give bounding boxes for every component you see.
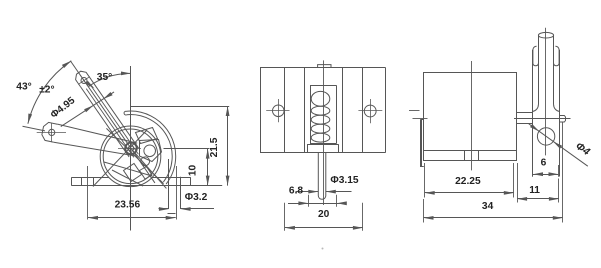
reference line at hub height for dimension 10 bbox=[164, 148, 210, 150]
spring coil loop 4 bbox=[311, 124, 330, 133]
svg-text:43°: 43° bbox=[16, 82, 31, 93]
extension lines for 34 bbox=[423, 199, 425, 223]
svg-text:Φ3.15: Φ3.15 bbox=[330, 175, 359, 186]
internal mechanism small bar lower right bbox=[140, 167, 153, 180]
base plate bottom edge extended right as reference bbox=[72, 185, 223, 187]
dimension 34 with outward arrows bbox=[424, 217, 563, 219]
lever arm A edges bbox=[91, 79, 139, 148]
diameter 4 hole in lever bbox=[537, 128, 554, 145]
lever arm A centerline extended bbox=[70, 61, 155, 183]
dimension diameter 3.15 leader with inward arrows bbox=[296, 191, 319, 193]
vertical centerline of side view bbox=[471, 61, 473, 170]
extension lines for bottom dimension bbox=[284, 203, 286, 231]
pin end stub on right of lever bbox=[559, 116, 565, 123]
dimension 21.5 vertical with arrows bbox=[227, 106, 229, 186]
node: 43-degree angular dimension arc with arrows bbox=[28, 61, 71, 124]
internal ratchet mechanism - pawl link with small circle bbox=[140, 140, 162, 162]
dimension 20 line with outside arrows bbox=[288, 203, 346, 205]
lever column outer edges bbox=[532, 50, 534, 177]
reference line at top for dimension 21.5 bbox=[131, 106, 230, 108]
svg-text:23.56: 23.56 bbox=[115, 199, 141, 210]
left mounting hole with crosshair bbox=[273, 105, 285, 117]
inner vertical line right panel bbox=[362, 68, 364, 153]
horizontal centerline segments bbox=[413, 118, 428, 120]
leader line for diameter 4 through hole bbox=[529, 124, 588, 166]
pin tip mark bbox=[168, 213, 176, 215]
body inner horizontal line bbox=[424, 150, 517, 152]
plunger pin below base (left view) vertical lines bbox=[168, 159, 170, 209]
internal mechanism bar lower bbox=[124, 164, 142, 182]
base plate tick lines bbox=[81, 177, 83, 186]
svg-text:35°: 35° bbox=[97, 72, 112, 83]
svg-text:Φ3.2: Φ3.2 bbox=[185, 192, 208, 203]
dimension 23.56 line with outward arrows bbox=[88, 217, 176, 219]
dimension 10 vertical with arrows bbox=[207, 149, 209, 186]
faint dot artifact bbox=[322, 248, 324, 250]
center channel left wall bbox=[304, 68, 306, 153]
base plate top edge (left segment) bbox=[72, 177, 109, 179]
wire: vertical centerline of rotary solenoid body (left view) bbox=[130, 66, 132, 231]
center channel right wall bbox=[342, 68, 344, 153]
solenoid front view body rectangle bbox=[260, 67, 386, 69]
inner slot rectangle (spring window) bbox=[310, 85, 337, 87]
svg-text:34: 34 bbox=[482, 201, 494, 212]
extension lines for 11 bbox=[517, 163, 519, 203]
dimension: diameter 4.95 of lever arm, leader with arrows bbox=[61, 92, 114, 127]
small cylinder on top of lever bbox=[538, 32, 553, 38]
spring coil loop 3 bbox=[311, 115, 330, 124]
svg-text:11: 11 bbox=[529, 185, 540, 196]
lever shaft inner lines bbox=[538, 35, 540, 104]
hub horizontal centerline bbox=[118, 148, 141, 150]
side view body rectangle bbox=[424, 72, 517, 74]
fillets where shaft widens bbox=[533, 105, 539, 112]
lever arm A (upper position) - chamfered tip cap bbox=[76, 71, 91, 86]
internal mechanism small roller circle bbox=[141, 157, 150, 166]
plunger head rectangle bbox=[307, 144, 338, 146]
dimension 22.25 with outward arrows bbox=[425, 192, 514, 194]
hub / shaft circles bbox=[125, 143, 137, 155]
projection centerline dash between views bbox=[409, 110, 420, 112]
spring coil top loop bbox=[311, 91, 330, 106]
node: 35-degree angular dimension arc with arrows bbox=[89, 73, 131, 86]
hole in lever arm B tip with crosshair bbox=[49, 129, 55, 135]
base mounting hole centerline bbox=[87, 166, 89, 220]
body inner tick lines bbox=[464, 151, 466, 162]
lever vertical centerline bbox=[545, 28, 547, 156]
svg-text:22.25: 22.25 bbox=[455, 176, 481, 187]
extension lines for 20 bbox=[308, 195, 310, 207]
base plate top edge (right segment) bbox=[152, 177, 190, 179]
inner vertical line left panel bbox=[284, 68, 286, 153]
left flange tab (thin) bbox=[420, 119, 424, 121]
lever arm B (lower position) - chamfered tip cap bbox=[42, 122, 58, 142]
bottom overall dimension with outward arrows (unlabeled) bbox=[285, 227, 363, 229]
extension lines for 22.25 bbox=[424, 163, 426, 198]
spring coil loop 5 bbox=[311, 133, 330, 142]
base plate left edge bbox=[71, 177, 73, 186]
top tab bbox=[318, 65, 331, 68]
spring coil loop 2 bbox=[311, 106, 330, 115]
dimension 11 with outward arrows bbox=[517, 198, 559, 200]
curved band / wrap spring around body (double arc with end cap) bbox=[125, 111, 176, 184]
dimension diameter 3.2 with inward arrows bbox=[159, 208, 169, 210]
lever arm A inner slot lines bbox=[91, 85, 139, 154]
internal mechanism bar upper right bbox=[136, 128, 158, 144]
extension lines for 6 bbox=[532, 165, 534, 177]
internal mechanism diagonal links bbox=[93, 130, 147, 187]
U-notch shoulders at top of column bbox=[533, 46, 539, 66]
svg-text:10: 10 bbox=[188, 165, 199, 177]
svg-text:20: 20 bbox=[318, 209, 330, 220]
svg-text:±2°: ±2° bbox=[39, 84, 54, 95]
base plate right edge bbox=[190, 177, 192, 186]
svg-text:21.5: 21.5 bbox=[209, 137, 220, 157]
rotary solenoid circular body - inner rim circle bbox=[103, 129, 158, 184]
lever arm B edges (tapered) bbox=[57, 124, 137, 143]
right mounting hole with crosshair bbox=[364, 105, 376, 117]
lever arm B centerline extension toward 43-degree arc bbox=[23, 126, 46, 131]
vertical centerline of front view bbox=[323, 60, 325, 205]
plunger pin with rounded tip bbox=[318, 153, 326, 200]
svg-text:6: 6 bbox=[541, 158, 547, 169]
rotary solenoid circular body - outer circle bbox=[100, 126, 161, 187]
extension line right for 23.56 bbox=[176, 166, 178, 220]
hole in lever arm A tip with crosshair bbox=[81, 78, 87, 84]
dimension 6 with outward arrows bbox=[533, 174, 559, 176]
svg-text:6.8: 6.8 bbox=[289, 186, 303, 197]
connection pin between body and lever bbox=[517, 112, 533, 114]
